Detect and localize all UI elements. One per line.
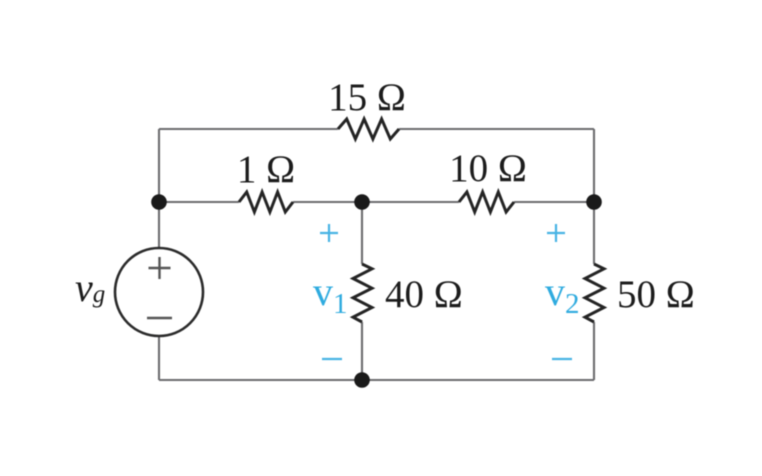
v2 polarity minus (552, 358, 572, 360)
resistor 40 ohm (vertical) (353, 264, 372, 322)
resistor 50 ohm (vertical) (585, 264, 604, 322)
v2 polarity plus (547, 224, 565, 242)
wire: middle rail node B to 10-ohm resistor (362, 201, 459, 203)
node B (center middle junction) (354, 194, 370, 210)
voltage source vg circle (115, 248, 203, 336)
resistor 15 ohm (top) (338, 119, 399, 139)
svg-text:40 Ω: 40 Ω (385, 273, 463, 316)
wire: middle rail 10-ohm resistor to node C (514, 201, 594, 203)
wire: top rail from left corner to 15-ohm resistor (159, 128, 338, 130)
svg-text:1 Ω: 1 Ω (237, 148, 295, 191)
wire: left vertical from top corner through node A to source top (158, 129, 160, 248)
node D (bottom center junction) (354, 372, 370, 388)
voltage source minus sign (147, 317, 172, 319)
wire: left vertical from source bottom to bottom rail (158, 336, 160, 380)
wire: top rail from 15-ohm resistor to right corner (399, 128, 594, 130)
svg-text:50 Ω: 50 Ω (617, 273, 695, 316)
wire: middle vertical 40-ohm resistor to node D (361, 322, 363, 380)
wire: middle vertical node B to 40-ohm resistor (361, 202, 363, 264)
resistor R 1 ohm (239, 192, 293, 212)
wire: middle rail node A to 1-ohm resistor (159, 201, 239, 203)
node C (right middle junction) (586, 194, 602, 210)
v1 polarity plus (320, 224, 338, 242)
wire: right vertical node C to 50-ohm resistor (593, 202, 595, 264)
svg-text:15 Ω: 15 Ω (328, 76, 406, 119)
voltage source plus sign (149, 257, 171, 279)
resistor 10 ohm (459, 192, 514, 212)
v1 polarity minus (322, 358, 342, 360)
wire: right vertical from top corner to node C (593, 129, 595, 202)
node A (left middle junction) (151, 194, 167, 210)
wire: right vertical 50-ohm resistor to bottom rail (593, 322, 595, 380)
svg-text:10 Ω: 10 Ω (449, 147, 527, 190)
wire: middle rail 1-ohm resistor to node B (293, 201, 362, 203)
wire: bottom rail (159, 379, 594, 381)
